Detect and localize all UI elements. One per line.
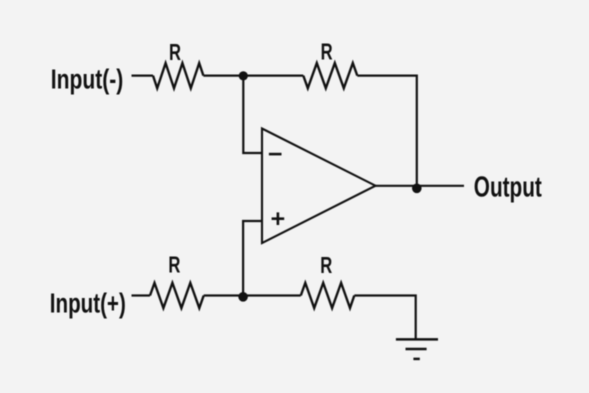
wire Input(-) stub	[132, 74, 154, 76]
resistor R1	[153, 63, 203, 88]
svg-text:R: R	[168, 252, 180, 278]
wire node A down and to inverting input	[243, 76, 262, 153]
wire R4 to corner and down to ground	[354, 296, 415, 340]
wire R2 to feedback corner and down to output node	[357, 76, 417, 186]
ground	[396, 339, 438, 359]
node Output (junction dot)	[412, 184, 422, 194]
svg-text:Input(-): Input(-)	[51, 64, 124, 95]
pin label plus (non-inverting input)	[272, 212, 285, 225]
node A (junction dot, inverting input net)	[239, 71, 248, 80]
svg-text:R: R	[320, 252, 332, 278]
wire R1 to node A	[203, 74, 303, 76]
svg-text:R: R	[169, 39, 181, 65]
wire R3 to node B	[204, 294, 301, 296]
wire Input(+) stub	[132, 294, 151, 296]
op-amp U1	[262, 129, 376, 244]
wire op-amp output	[376, 185, 465, 187]
resistor R3	[150, 283, 204, 308]
svg-text:R: R	[321, 39, 333, 65]
resistor R2 (feedback)	[303, 63, 357, 88]
wire node B up and to non-inverting input	[243, 221, 262, 297]
node B (junction dot, non-inverting input net)	[238, 292, 248, 302]
svg-text:Output: Output	[474, 172, 542, 204]
resistor R4	[301, 283, 355, 308]
pin label minus (inverting input)	[269, 153, 282, 156]
svg-text:Input(+): Input(+)	[50, 288, 126, 319]
